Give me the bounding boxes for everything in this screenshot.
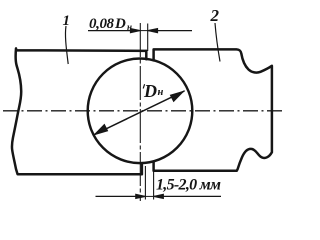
label 2 — [210, 6, 220, 25]
extension line right — [153, 163, 155, 200]
left tail with right arrow — [96, 195, 145, 197]
leader line 2 — [215, 23, 220, 62]
segment between extension lines — [140, 30, 148, 32]
label Dн — [143, 81, 164, 101]
dimension 1,5-2,0 мм lines — [96, 163, 222, 200]
right tail with left arrow — [148, 30, 192, 32]
svg-text:2: 2 — [210, 6, 220, 25]
dimension 0,08 Dн lines — [88, 24, 192, 52]
svg-text:0,08: 0,08 — [89, 16, 115, 32]
dimension 0,08 Dн text — [89, 16, 132, 32]
extension line at lip — [147, 24, 149, 52]
label 1 — [63, 13, 71, 29]
svg-text:1,5-2,0 мм: 1,5-2,0 мм — [156, 177, 221, 194]
circle Dн pipe — [88, 59, 193, 164]
diameter line with arrows — [94, 91, 185, 135]
segment between extensions — [145, 195, 154, 197]
dimension 1,5-2,0 мм text — [156, 177, 221, 194]
centerline horizontal — [3, 110, 282, 112]
right line with left arrow — [154, 195, 221, 197]
part 1 outline — [12, 48, 146, 174]
left tail with right arrow — [88, 30, 140, 32]
extension line left — [144, 166, 146, 200]
svg-text:н: н — [158, 87, 164, 98]
svg-text:D: D — [143, 81, 157, 101]
centerline vertical — [139, 23, 141, 201]
leader line 1 — [65, 26, 68, 64]
part 2 outline — [154, 49, 272, 170]
svg-text:D: D — [114, 16, 126, 32]
